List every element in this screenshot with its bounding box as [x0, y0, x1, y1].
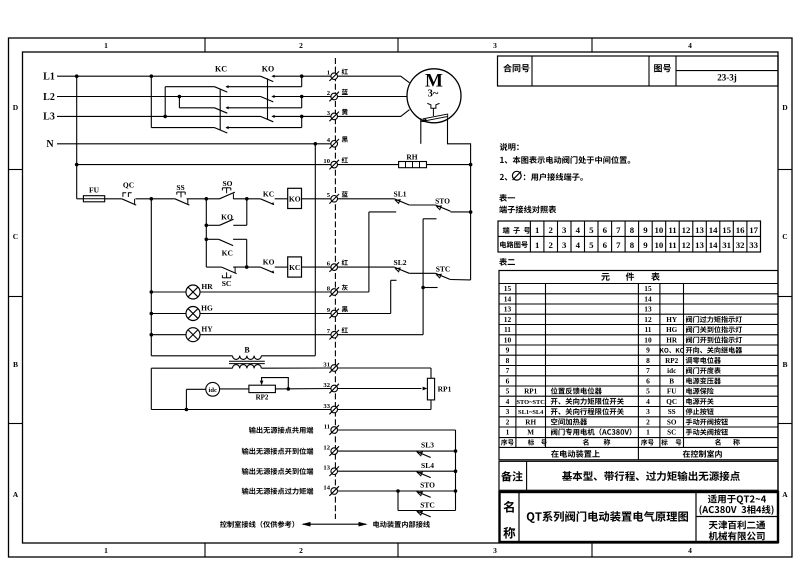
wire L1 drop to KC bottom contact	[150, 76, 152, 127]
svg-text:FU: FU	[89, 186, 100, 195]
wire KO holding output	[233, 224, 247, 226]
component table left row 4 name	[551, 398, 558, 405]
svg-text:2: 2	[548, 240, 553, 250]
svg-text:14: 14	[644, 295, 652, 304]
wire KC holding output	[233, 238, 247, 240]
svg-text:2: 2	[299, 546, 303, 555]
component table right row 12 name	[686, 316, 692, 323]
terminal 8	[331, 289, 338, 296]
svg-text:RP1: RP1	[524, 388, 538, 396]
component table footer right 在控制室内	[683, 450, 690, 458]
wire terminal 14 line	[337, 490, 455, 492]
terminal 14	[331, 488, 338, 495]
svg-text:11: 11	[324, 423, 330, 430]
table1 row2 header 电路图号	[500, 241, 506, 248]
legend right text 电动装置内部接线	[373, 521, 379, 528]
svg-text:17: 17	[749, 225, 758, 235]
svg-text:23-3j: 23-3j	[717, 73, 737, 83]
svg-text:12: 12	[682, 225, 691, 235]
svg-text:STO: STO	[420, 481, 435, 490]
svg-text:RP2: RP2	[256, 394, 269, 402]
relay coil KO	[288, 188, 302, 208]
name block dividers	[518, 492, 520, 542]
svg-text:14: 14	[323, 484, 330, 491]
relay coil KC	[288, 257, 302, 277]
svg-text:3: 3	[493, 41, 497, 50]
notes heading 说明	[500, 143, 508, 151]
svg-text:2: 2	[548, 225, 553, 235]
svg-text:2: 2	[327, 90, 331, 97]
note 1 text	[500, 157, 504, 163]
svg-text:KC: KC	[222, 248, 233, 257]
wire KO pole1 output to terminal 1	[273, 75, 331, 77]
wire idc left	[186, 388, 205, 390]
company line2 机械有限公司	[709, 531, 718, 540]
svg-text:15: 15	[644, 284, 652, 293]
wire KO coil to terminal 5	[302, 198, 332, 200]
svg-text:13: 13	[695, 225, 704, 235]
node L1 feed junction	[75, 74, 79, 78]
svg-text:4: 4	[327, 137, 331, 144]
component table right row 4 name	[686, 398, 692, 405]
svg-text:13: 13	[644, 305, 652, 314]
svg-text:SL3: SL3	[421, 441, 434, 450]
svg-text:11: 11	[668, 240, 676, 250]
svg-text:SO: SO	[667, 419, 677, 427]
svg-text:4: 4	[506, 397, 510, 406]
terminal 13	[331, 468, 338, 475]
node lamp bus junction	[150, 197, 154, 201]
svg-text:2: 2	[506, 418, 510, 427]
potentiometer RP2 wiper	[260, 381, 264, 386]
table1 terminal map grid	[498, 221, 761, 252]
node heater tap junction	[75, 163, 79, 167]
node L1 to KC junction	[150, 74, 154, 78]
legend arrow	[303, 523, 366, 525]
svg-text:6: 6	[327, 261, 331, 268]
lamp HR	[151, 291, 186, 293]
contactor KC contact pole2	[215, 108, 228, 113]
boundary dashed line	[334, 58, 336, 519]
node lamp HR junction	[150, 290, 154, 294]
svg-text:SC: SC	[667, 429, 676, 437]
label 输出无源接点过力矩端	[242, 488, 249, 495]
svg-text:KC: KC	[289, 263, 300, 272]
svg-text:6: 6	[603, 240, 608, 250]
svg-text:FU: FU	[667, 388, 677, 396]
terminal 10	[331, 161, 338, 168]
svg-text:KC: KC	[263, 189, 274, 198]
svg-text:32: 32	[323, 382, 330, 389]
component table left row 2 name	[551, 418, 557, 425]
node seal-in junction top	[245, 197, 249, 201]
contactor KO linkage	[267, 78, 269, 119]
svg-text:4: 4	[576, 225, 581, 235]
svg-text:D: D	[13, 103, 19, 112]
contactor KC contact pole1	[215, 87, 228, 92]
terminal 3	[331, 113, 338, 120]
svg-text:13: 13	[695, 240, 704, 250]
wire close line left	[206, 266, 221, 268]
component table right row 8 name	[686, 357, 692, 364]
svg-text:B: B	[669, 378, 674, 386]
remark box 备注	[499, 461, 778, 490]
svg-text:33: 33	[749, 240, 758, 250]
svg-text:9: 9	[643, 240, 648, 250]
table1 heading 表一	[499, 194, 507, 202]
wire fuse to QC	[105, 198, 122, 200]
node STO common junction	[454, 489, 458, 493]
svg-text:KO: KO	[263, 257, 275, 266]
svg-text:L1: L1	[43, 72, 55, 83]
svg-text:B: B	[244, 346, 250, 355]
wire STC output to common	[450, 279, 470, 281]
svg-text:3: 3	[327, 110, 331, 117]
limit switch SL3	[418, 452, 423, 456]
contactor KO contact pole3	[261, 116, 274, 121]
wire L3	[57, 115, 261, 117]
svg-text:4: 4	[688, 41, 692, 50]
terminal 9	[331, 310, 338, 317]
legend left text 控制室接线	[220, 521, 227, 528]
svg-text:7: 7	[327, 328, 331, 335]
svg-text:5: 5	[506, 387, 510, 396]
component table left row 1 name	[551, 428, 557, 435]
svg-text:4: 4	[576, 240, 581, 250]
svg-text:HY: HY	[201, 325, 213, 334]
svg-text:3: 3	[562, 225, 567, 235]
terminal 33	[331, 406, 338, 413]
svg-text:33: 33	[323, 403, 330, 410]
wire control branch drop	[205, 199, 207, 267]
component table column header right 名称	[715, 439, 721, 446]
wire fuse feed corner	[77, 198, 84, 200]
svg-text:QC: QC	[666, 398, 677, 406]
node SL4 junction	[454, 469, 458, 473]
resistor RH	[399, 162, 427, 168]
wire terminal 31 to RP1 top	[337, 367, 431, 369]
svg-text:HR: HR	[201, 282, 213, 291]
table1 row1 header 端子号	[503, 227, 510, 234]
svg-text:6: 6	[603, 225, 608, 235]
wire KO pole2 output to terminal 2	[273, 96, 331, 98]
contactor KO contact pole1	[261, 76, 274, 81]
wire terminal3 to motor	[337, 110, 409, 117]
applicability line2 AC380V 3相4线	[699, 505, 701, 515]
svg-text:14: 14	[709, 240, 718, 250]
wire open-indication stub from terminal 8	[337, 291, 369, 293]
wire KC holding input	[206, 238, 218, 240]
svg-text:3: 3	[562, 240, 567, 250]
terminal 32	[331, 385, 338, 392]
svg-text:SS: SS	[668, 408, 676, 416]
wire L1	[57, 75, 261, 77]
potentiometer RP1	[427, 378, 434, 400]
svg-text:9: 9	[643, 225, 648, 235]
border top column ticks	[204, 38, 206, 52]
svg-text:7: 7	[616, 240, 621, 250]
svg-text:C: C	[13, 232, 18, 241]
wire KO NC to KC coil	[275, 266, 288, 268]
wire terminal2 to motor	[337, 96, 407, 98]
wire feed drop from L1 to fuse line	[76, 76, 78, 199]
wire N	[57, 143, 331, 145]
node torque open junction	[469, 210, 473, 214]
svg-text:6: 6	[646, 377, 650, 386]
svg-text:32: 32	[736, 240, 745, 250]
svg-text:14: 14	[709, 225, 718, 235]
lamp HY	[151, 334, 186, 336]
label 输出无源接点开到位端	[242, 448, 249, 455]
component table column header left 标号	[528, 439, 534, 445]
label hetongbao 合同号	[503, 64, 512, 72]
node SL3 junction	[454, 449, 458, 453]
svg-text:3~: 3~	[428, 89, 439, 100]
svg-text:10: 10	[655, 225, 664, 235]
svg-text:RP1: RP1	[438, 385, 452, 394]
wire terminal1 to motor	[337, 76, 409, 83]
svg-text:2: 2	[646, 418, 650, 427]
contactor KO contact pole2	[261, 97, 274, 102]
svg-text:idc: idc	[667, 367, 677, 375]
wire terminal 5 to SL1	[337, 198, 394, 200]
svg-text:RP2: RP2	[665, 357, 679, 365]
title block box	[498, 56, 779, 86]
svg-text:3: 3	[506, 407, 510, 416]
wire SO to KC NC	[233, 198, 260, 200]
svg-text:31: 31	[722, 240, 731, 250]
svg-text:9: 9	[506, 346, 510, 355]
wire KO pole3 output to terminal 3	[273, 115, 331, 117]
wire L2 drop to KC middle contact	[178, 97, 180, 108]
name block label 称	[503, 527, 515, 539]
svg-text:13: 13	[504, 305, 512, 314]
component table column header left 名称	[583, 439, 589, 446]
component table header 元件表	[601, 273, 609, 281]
wire STC passive branch	[397, 491, 399, 511]
wire RP2 to terminal 32	[275, 388, 331, 390]
svg-text:8: 8	[630, 240, 635, 250]
terminal 12	[331, 448, 338, 455]
wire terminal 10 line	[77, 164, 331, 166]
svg-text:B: B	[782, 360, 787, 369]
svg-text:D: D	[782, 103, 788, 112]
svg-text:7: 7	[646, 366, 650, 375]
name block thick box	[500, 492, 779, 542]
torque switch STC	[437, 274, 442, 278]
node control branch junction	[205, 197, 209, 201]
node RP2 wiper junction	[287, 387, 291, 391]
wire torque stub lower	[423, 287, 438, 289]
applicability line1 适用于QT2~4	[708, 494, 717, 503]
svg-text:STO: STO	[435, 196, 450, 205]
node phase3 junction	[300, 115, 304, 119]
svg-text:5: 5	[589, 240, 594, 250]
wire branch to KO holding	[206, 224, 219, 226]
svg-text:1: 1	[535, 240, 539, 250]
wire terminal 6 to SL2	[337, 266, 394, 268]
lamp HG	[151, 313, 186, 315]
switch QC	[122, 199, 137, 205]
wire RP1 bottom to terminal 33	[430, 400, 432, 410]
svg-text:3: 3	[493, 546, 497, 555]
contact KC NC	[260, 199, 273, 205]
contactor KC linkage	[219, 89, 221, 130]
wire KC pole1 output	[227, 86, 302, 88]
svg-text:SL1: SL1	[394, 190, 407, 199]
potentiometer RP2	[249, 385, 276, 392]
node lamp HY junction	[150, 333, 154, 337]
wire N drop to transformer	[314, 144, 316, 356]
svg-text:8: 8	[506, 356, 510, 365]
label 输出无源接点共用端	[249, 427, 256, 434]
note 2 text	[500, 174, 504, 180]
svg-text:12: 12	[323, 445, 330, 452]
component table grid	[499, 283, 778, 285]
svg-text:KO: KO	[262, 65, 274, 74]
wire KC pole3 output	[227, 127, 302, 129]
svg-text:SO: SO	[222, 179, 232, 188]
svg-text:13: 13	[323, 465, 330, 472]
svg-text:16: 16	[736, 225, 745, 235]
wire STO output to common	[450, 211, 470, 213]
svg-text:10: 10	[504, 336, 512, 345]
drawing title QT系列阀门电动装置电气原理图	[527, 512, 535, 523]
limit switch SL1	[396, 200, 401, 204]
node torque stub junction	[421, 286, 425, 290]
button SO open	[220, 192, 235, 199]
terminal 11	[331, 427, 338, 434]
component table left row 5 name	[551, 387, 558, 394]
svg-text:4: 4	[646, 397, 650, 406]
component table right row 9 name	[686, 347, 692, 353]
meter idc	[206, 382, 220, 396]
svg-text:10: 10	[644, 336, 652, 345]
limit switch SL4	[418, 472, 423, 476]
wire SS to SO	[187, 198, 220, 200]
svg-text:7: 7	[616, 225, 621, 235]
svg-text:L3: L3	[43, 112, 55, 123]
wire terminal 32 wiper to RP1	[337, 388, 421, 390]
terminal 6	[331, 264, 338, 271]
node phase2 junction	[300, 95, 304, 99]
table1 subtitle 端子接线对照表	[499, 206, 507, 214]
terminal 2	[331, 93, 338, 100]
svg-text:1: 1	[104, 546, 108, 555]
svg-text:15: 15	[504, 284, 512, 293]
wire L2	[57, 96, 261, 98]
border left row ticks	[9, 169, 23, 171]
svg-text:QC: QC	[123, 181, 134, 190]
wire idc right to RP2	[220, 388, 249, 390]
wire secondary left drop	[150, 368, 152, 409]
transformer B secondary	[151, 367, 232, 369]
svg-text:1: 1	[535, 225, 539, 235]
svg-text:12: 12	[504, 315, 512, 324]
svg-text:RH: RH	[525, 419, 536, 427]
label 输出无源接点关到位端	[242, 468, 249, 475]
svg-text:STC: STC	[420, 501, 435, 510]
wire motor lead right	[448, 117, 471, 212]
svg-text:12: 12	[682, 240, 691, 250]
node lamp HG junction	[150, 312, 154, 316]
svg-text:HY: HY	[666, 316, 678, 324]
fuse FU	[83, 196, 104, 202]
wire terminal 13 line	[337, 470, 455, 472]
wire close-indication stub from terminal 9	[337, 313, 390, 315]
svg-text:7: 7	[506, 366, 510, 375]
svg-text:10: 10	[323, 158, 330, 165]
transformer B core	[229, 360, 265, 362]
svg-text:1: 1	[327, 70, 330, 77]
wire SL2 to STC	[409, 272, 435, 274]
svg-text:11: 11	[504, 325, 511, 334]
svg-text:14: 14	[504, 295, 512, 304]
svg-text:SL4: SL4	[421, 461, 434, 470]
component table column header right 标号	[661, 439, 667, 445]
svg-text:SS: SS	[176, 183, 184, 192]
border bottom column ticks	[204, 543, 206, 557]
component table right row 6 name	[686, 378, 692, 385]
node idc junction	[185, 408, 189, 412]
terminal 7	[331, 331, 338, 338]
svg-text:10: 10	[655, 240, 664, 250]
remark label 备注	[501, 471, 512, 481]
node STO branch junction	[396, 489, 400, 493]
svg-text:1: 1	[104, 41, 108, 50]
svg-text:8: 8	[630, 225, 635, 235]
component table right row 11 name	[686, 326, 692, 333]
svg-text:A: A	[13, 490, 19, 499]
node heater right junction	[469, 163, 473, 167]
wire terminal 12 line	[337, 450, 455, 452]
wire KC coil to terminal 6	[302, 266, 332, 268]
contact KC holding	[219, 239, 233, 245]
button SC close	[222, 267, 237, 274]
border right row ticks	[778, 169, 792, 171]
motor thermal protector	[427, 103, 439, 108]
svg-text:1: 1	[646, 428, 650, 437]
svg-text:1: 1	[506, 428, 510, 437]
wire SC to KO NC	[233, 266, 260, 268]
company line1 天津百利二通	[709, 521, 718, 529]
wire torque-indication stub from terminal 7	[337, 334, 423, 336]
terminal 5	[331, 196, 338, 203]
note 2 text cont	[524, 175, 526, 180]
svg-text:3: 3	[646, 407, 650, 416]
svg-text:9: 9	[327, 307, 331, 314]
wire terminal 11 common line	[337, 429, 455, 431]
component table outer box	[499, 271, 778, 460]
svg-text:B: B	[13, 360, 18, 369]
torque switch STC passive	[418, 511, 423, 515]
component table right row 7 name	[686, 367, 692, 374]
svg-text:HG: HG	[201, 304, 213, 313]
wire motor lead left to N line	[420, 118, 422, 144]
transformer B primary	[151, 355, 232, 357]
motor M circle	[407, 69, 461, 123]
svg-text:11: 11	[645, 325, 652, 334]
component table column header left 序号	[501, 439, 507, 445]
remark text	[562, 471, 572, 481]
svg-text:L2: L2	[43, 92, 55, 103]
component table right row 10 name	[686, 337, 692, 344]
component table right row 9 tag KO、KC	[660, 348, 664, 353]
svg-text:KO: KO	[289, 195, 301, 204]
node L2 to KC junction	[178, 95, 182, 99]
label tuhao 图号	[654, 64, 662, 72]
button SS stop	[175, 199, 190, 205]
